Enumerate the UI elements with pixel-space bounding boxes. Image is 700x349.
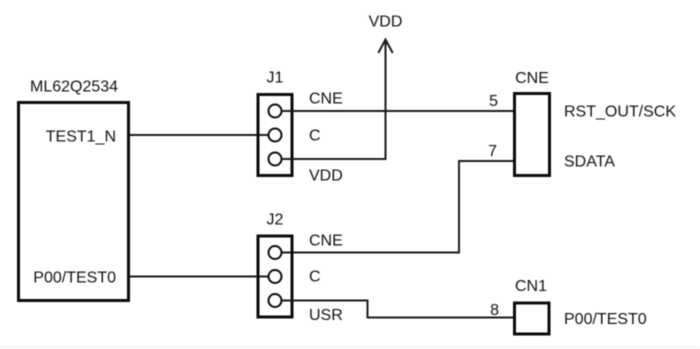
wire J2 USR to CN1 pin 8 bbox=[282, 301, 513, 318]
svg-text:VDD: VDD bbox=[309, 168, 343, 185]
svg-text:TEST1_N: TEST1_N bbox=[46, 129, 116, 146]
J2 pin circle 3 (USR) bbox=[269, 294, 282, 307]
svg-text:CNE: CNE bbox=[515, 70, 549, 87]
wire J1 CNE to CNE pin 5 bbox=[282, 110, 513, 112]
J2 pin circle 2 (C) bbox=[269, 270, 282, 283]
svg-text:P00/TEST0: P00/TEST0 bbox=[33, 270, 116, 287]
wire CNE pin 7 to J2 CNE bbox=[282, 161, 513, 253]
J1 pin circle 3 (VDD) bbox=[269, 153, 282, 166]
power symbol VDD arrow bbox=[378, 40, 392, 54]
IC ML62Q2534 body bbox=[19, 103, 129, 301]
svg-text:CNE: CNE bbox=[309, 233, 343, 250]
svg-text:USR: USR bbox=[309, 307, 343, 324]
svg-text:P00/TEST0: P00/TEST0 bbox=[564, 311, 647, 328]
connector J2 body bbox=[258, 236, 292, 317]
svg-text:5: 5 bbox=[489, 93, 498, 110]
connector CNE body bbox=[515, 94, 550, 176]
svg-text:J2: J2 bbox=[267, 212, 284, 229]
svg-text:C: C bbox=[309, 128, 321, 145]
J1 pin circle 1 (CNE) bbox=[269, 105, 282, 118]
wire TEST1_N to J1 pin C bbox=[130, 134, 268, 136]
svg-text:7: 7 bbox=[488, 143, 497, 160]
svg-text:J1: J1 bbox=[267, 70, 284, 87]
svg-text:8: 8 bbox=[490, 302, 499, 319]
svg-text:CNE: CNE bbox=[309, 91, 343, 108]
wire J1 VDD to VDD rail bbox=[282, 41, 386, 160]
svg-text:C: C bbox=[309, 269, 321, 286]
connector CN1 body bbox=[515, 303, 550, 334]
J1 pin circle 2 (C) bbox=[269, 129, 282, 142]
svg-text:SDATA: SDATA bbox=[564, 154, 615, 171]
J2 pin circle 1 (CNE) bbox=[269, 246, 282, 259]
svg-text:VDD: VDD bbox=[369, 14, 403, 31]
connector J1 body bbox=[258, 95, 292, 176]
svg-text:RST_OUT/SCK: RST_OUT/SCK bbox=[564, 104, 676, 121]
wire P00/TEST0 to J2 pin C bbox=[130, 276, 268, 278]
svg-text:ML62Q2534: ML62Q2534 bbox=[30, 79, 118, 96]
svg-text:CN1: CN1 bbox=[515, 278, 547, 295]
